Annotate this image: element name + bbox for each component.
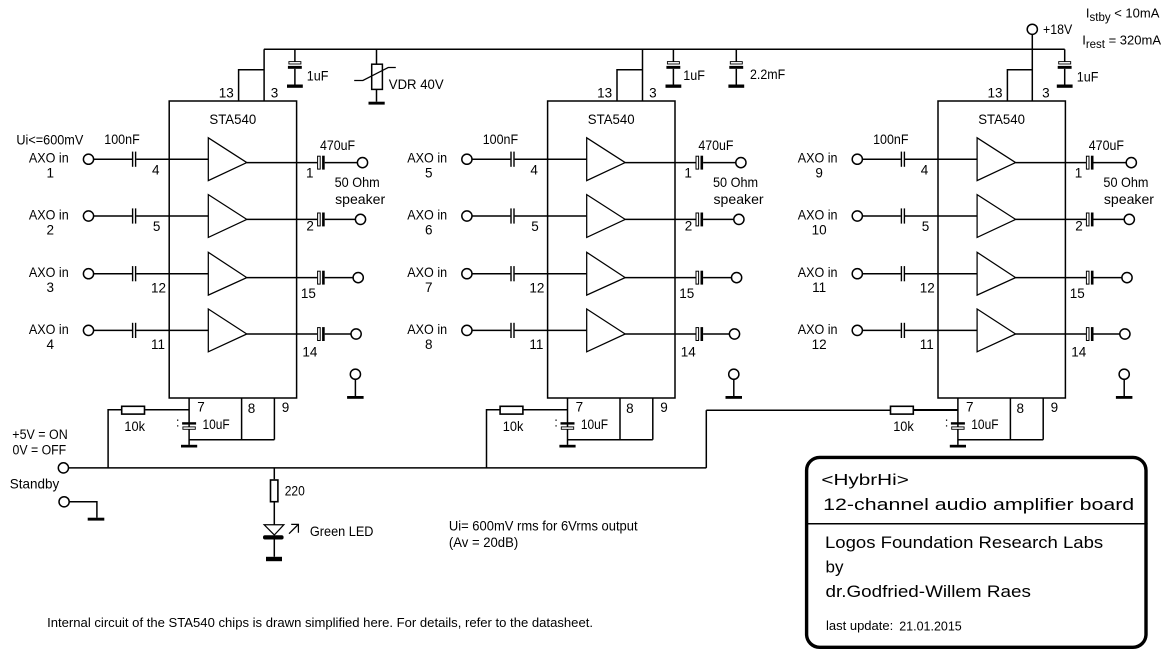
svg-text:AXO in: AXO in [29,206,69,222]
amplifier stage ch 6 (1/4 U2) [587,195,626,238]
svg-text:10uF: 10uF [971,416,998,432]
title block divider [805,523,1148,525]
svg-text:Internal circuit of the STA540: Internal circuit of the STA540 chips is … [47,615,593,630]
amplifier stage ch 3 (1/4 U1) [208,252,247,295]
resistor 10k (U2 standby) [500,406,523,414]
svg-text:7: 7 [966,399,974,414]
svg-text:speaker: speaker [714,191,764,207]
wire: amp ch 3 output to 470uF cap [247,277,317,279]
svg-text:AXO in: AXO in [29,264,69,280]
output capacitor 470uF (ch 1) [318,156,321,169]
svg-text:10: 10 [812,222,827,237]
svg-text:AXO in: AXO in [798,150,838,166]
output capacitor 470uF (ch 12) [1086,328,1089,341]
wire: AXO in 6 to coupling cap [472,215,510,217]
wire: U2 pins 7-8-9 common [568,439,653,441]
svg-text:1: 1 [684,166,692,181]
wire: AXO in 11 to coupling cap [862,273,900,275]
wire: 470uF cap to speaker terminal ch 10 [1094,218,1125,220]
svg-text:9: 9 [282,400,290,415]
svg-text:AXO in: AXO in [798,206,838,222]
svg-text:9: 9 [815,166,823,181]
U1 pin 3 stub [263,49,265,101]
svg-text:6: 6 [425,222,433,237]
svg-text:4: 4 [152,163,160,178]
wire: amp ch 12 output to 470uF cap [1016,333,1086,335]
speaker terminal ch 5 [736,158,746,168]
svg-text:10uF: 10uF [203,416,230,432]
ground (10uF U2) [559,445,575,448]
svg-text:2: 2 [685,218,693,233]
resistor 10k (U1 standby) [122,406,145,414]
terminal AXO in 9 [852,154,862,164]
wire: AXO in 7 to coupling cap [472,273,510,275]
svg-text:11: 11 [920,337,934,352]
ground (C 1uF (U2 supply)) [666,85,682,88]
svg-text:8: 8 [1017,401,1025,416]
wire: +18V terminal down to U3 pin 3 [1031,34,1033,101]
terminal AXO in 10 [852,211,862,221]
svg-text:13: 13 [219,85,234,100]
U3 pin 9 stub [1042,398,1044,440]
wire: coupling cap to U1 pin 11 [136,329,208,331]
svg-text:4: 4 [47,337,55,352]
wire: +18V supply rail [264,48,1065,50]
svg-text:1uF: 1uF [307,68,329,83]
wire: U1 pins 7-8-9 common [189,439,274,441]
coupling capacitor 100nF (ch 3) [132,266,133,281]
svg-text:10k: 10k [124,419,145,434]
wire: U3 10k to U3 pin 7 [914,409,958,411]
U2 pin 7 stub [567,398,569,445]
wire: standby return to ground [69,502,97,518]
svg-text:7: 7 [425,280,433,295]
coupling capacitor 100nF (ch 5) [510,152,511,167]
wire: 470uF cap to speaker terminal ch 6 [703,218,734,220]
wire: return terminal to ground (U2) [733,379,735,396]
amplifier stage ch 10 (1/4 U3) [977,195,1016,238]
svg-text:50 Ohm: 50 Ohm [713,174,758,190]
svg-text:10k: 10k [503,419,524,434]
svg-text:1uF: 1uF [683,68,705,83]
coupling capacitor 100nF (ch 2) [132,208,133,223]
IC U2 STA540 [548,101,675,398]
terminal standby return [59,497,69,507]
svg-text:4: 4 [921,163,929,178]
svg-text:AXO in: AXO in [407,321,447,337]
reservoir capacitor 2.2mF [735,49,737,61]
svg-text:14: 14 [1071,345,1087,360]
coupling capacitor 100nF (ch 10) [901,208,902,223]
svg-text:470uF: 470uF [320,137,355,153]
decoupling capacitor 10uF (U3) [951,422,965,424]
svg-text:0V = OFF: 0V = OFF [13,443,67,458]
amplifier stage ch 11 (1/4 U3) [977,252,1016,295]
wire: 470uF cap to speaker terminal ch 9 [1094,162,1127,164]
wire: 470uF cap to speaker terminal ch 5 [703,162,736,164]
decoupling capacitor 10uF (U2) [561,422,575,424]
svg-text::: : [554,415,558,430]
U3 pin 7 stub [957,398,959,445]
svg-text:10uF: 10uF [581,416,608,432]
LED light arrow [289,525,298,534]
output capacitor 470uF (ch 5) [696,156,699,169]
svg-text:15: 15 [301,286,316,301]
terminal AXO in 4 [83,325,93,335]
wire: AXO in 12 to coupling cap [862,329,900,331]
wire: 10k to U1 pin 7 [145,409,189,411]
output capacitor 470uF (ch 7) [696,271,699,284]
svg-text:AXO in: AXO in [407,206,447,222]
svg-text:15: 15 [1070,286,1085,301]
svg-text:5: 5 [922,219,930,234]
svg-text:by: by [826,557,844,576]
output capacitor 470uF (ch 10) [1086,213,1089,226]
wire: amp ch 6 output to 470uF cap [625,218,695,220]
varistor VDR 40V [376,49,378,64]
svg-text:100nF: 100nF [873,131,908,147]
wire: AXO in 5 to coupling cap [472,158,510,160]
output capacitor 470uF (ch 9) [1086,156,1089,169]
speaker terminal ch 6 [734,214,744,224]
svg-text:7: 7 [576,399,584,414]
svg-text::: : [945,415,949,430]
speaker terminal ch 1 [357,158,367,168]
svg-text:AXO in: AXO in [29,150,69,166]
coupling capacitor 100nF (ch 12) [901,323,902,338]
wire: amp ch 1 output to 470uF cap [247,162,317,164]
svg-text:50 Ohm: 50 Ohm [335,174,380,190]
capacitor C 1uF (U3 supply) [1064,49,1066,61]
wire: amp ch 5 output to 470uF cap [625,162,695,164]
svg-text:220: 220 [285,483,305,498]
output capacitor 470uF (ch 3) [318,271,321,284]
svg-text:dr.Godfried-Willem Raes: dr.Godfried-Willem Raes [826,582,1031,601]
svg-text:9: 9 [1051,400,1059,415]
wire: U3 pins 7-8-9 common [958,439,1043,441]
svg-text:AXO in: AXO in [407,150,447,166]
U1 pin 8 stub [241,398,243,440]
ground (2.2mF) [728,85,744,88]
wire: amp ch 4 output to 470uF cap [247,333,317,335]
svg-text:STA540: STA540 [209,111,256,127]
output capacitor 470uF (ch 4) [318,328,321,341]
wire: coupling cap to U2 pin 5 [515,215,587,217]
wire: coupling cap to U1 pin 4 [136,158,208,160]
LED D1 green (anode triangle) [264,525,284,535]
amplifier stage ch 8 (1/4 U2) [587,309,626,352]
speaker terminal ch 7 [732,273,742,283]
speaker terminal ch 3 [353,273,363,283]
svg-text:Ui= 600mV rms for 6Vrms output: Ui= 600mV rms for 6Vrms output [449,519,638,534]
svg-text:12: 12 [812,337,827,352]
coupling capacitor 100nF (ch 7) [510,266,511,281]
svg-text:470uF: 470uF [698,137,733,153]
coupling capacitor 100nF (ch 9) [901,152,902,167]
wire: 470uF cap to speaker terminal ch 11 [1094,277,1122,279]
svg-text:STA540: STA540 [588,111,635,127]
wire: coupling cap to U2 pin 4 [515,158,587,160]
wire: 470uF cap to speaker terminal ch 12 [1094,333,1120,335]
wire: standby rail riser [705,410,707,468]
ground (VDR) [369,102,385,105]
terminal AXO in 5 [462,154,472,164]
ground (C 1uF (U1 supply)) [287,85,303,88]
U2 pin 9 stub [652,398,654,440]
svg-text:14: 14 [681,345,697,360]
svg-text:+18V: +18V [1043,22,1072,37]
svg-text:1: 1 [1075,166,1083,181]
IC U1 STA540 [169,101,296,398]
amplifier stage ch 4 (1/4 U1) [208,309,247,352]
speaker terminal ch 11 [1122,273,1132,283]
svg-text:2: 2 [47,222,55,237]
wire: amp ch 11 output to 470uF cap [1016,277,1086,279]
capacitor C 1uF (U1 supply) [294,49,296,61]
wire: 470uF cap to speaker terminal ch 8 [703,333,729,335]
amplifier stage ch 7 (1/4 U2) [587,252,626,295]
U3 pin 13 stub [1007,70,1033,101]
wire: return terminal to ground (U3) [1123,379,1125,396]
svg-text:12: 12 [151,281,166,296]
speaker return terminal (U3) [1119,369,1129,379]
svg-text:Green LED: Green LED [310,523,374,539]
svg-text:AXO in: AXO in [798,264,838,280]
IC U3 STA540 [938,101,1065,398]
output capacitor 470uF (ch 6) [696,213,699,226]
wire: coupling cap to U3 pin 12 [905,273,977,275]
resistor 10k (U3 standby) [891,406,914,414]
svg-text:10k: 10k [893,419,914,434]
speaker terminal ch 2 [355,214,365,224]
wire: standby rail to 10k (U1) [108,410,121,468]
svg-text:3: 3 [271,85,279,100]
svg-text:13: 13 [597,85,612,100]
speaker terminal ch 8 [729,329,739,339]
wire: 220 resistor to LED [273,503,275,525]
svg-text:5: 5 [425,166,433,181]
wire: coupling cap to U3 pin 4 [905,158,977,160]
amplifier stage ch 9 (1/4 U3) [977,138,1016,181]
svg-text:1uF: 1uF [1077,69,1099,84]
amplifier stage ch 12 (1/4 U3) [977,309,1016,352]
U1 pin 9 stub [273,398,275,440]
wire: AXO in 10 to coupling cap [862,215,900,217]
svg-text:last update:: last update: [826,618,893,633]
wire: coupling cap to U1 pin 12 [136,273,208,275]
svg-text:21.01.2015: 21.01.2015 [899,620,962,634]
terminal +18V [1027,24,1037,34]
svg-text:(Av = 20dB): (Av = 20dB) [449,535,518,550]
amplifier stage ch 1 (1/4 U1) [208,138,247,181]
resistor 220 (LED) [271,480,278,502]
svg-text:5: 5 [153,219,161,234]
ground (speaker return U3) [1116,396,1133,399]
svg-text:1: 1 [306,166,314,181]
svg-text:AXO in: AXO in [798,321,838,337]
terminal AXO in 8 [462,325,472,335]
wire: return terminal to ground (U1) [354,379,356,396]
ground (10uF U3) [950,445,966,448]
terminal AXO in 11 [852,269,862,279]
wire: 10k to U3 pin 7 [914,409,958,411]
speaker terminal ch 10 [1124,214,1134,224]
wire: amp ch 8 output to 470uF cap [625,333,695,335]
title block frame [807,457,1146,647]
svg-text:2: 2 [1075,218,1083,233]
wire: 470uF cap to speaker terminal ch 2 [325,218,356,220]
terminal AXO in 12 [852,325,862,335]
wire: amp ch 10 output to 470uF cap [1016,218,1086,220]
speaker terminal ch 4 [351,329,361,339]
ground (10uF U1) [181,445,197,448]
speaker terminal ch 12 [1120,329,1130,339]
svg-text:15: 15 [679,286,694,301]
svg-text:+5V = ON: +5V = ON [12,427,67,442]
wire: AXO in 3 to coupling cap [94,273,132,275]
svg-text:9: 9 [660,400,668,415]
wire: standby rail to 10k (U2) [487,410,500,468]
capacitor C 1uF (U2 supply) [672,49,674,61]
svg-text:12: 12 [920,281,935,296]
svg-text:2: 2 [306,218,314,233]
svg-text:<HybrHi>: <HybrHi> [821,472,908,489]
svg-text:100nF: 100nF [104,131,139,147]
wire: coupling cap to U3 pin 11 [905,329,977,331]
svg-text:13: 13 [988,85,1003,100]
wire: amp ch 9 output to 470uF cap [1016,162,1086,164]
wire: AXO in 1 to coupling cap [94,158,132,160]
svg-text:Ui<=600mV: Ui<=600mV [16,133,83,148]
svg-text:AXO in: AXO in [29,321,69,337]
svg-text:Standby: Standby [10,476,59,492]
output capacitor 470uF (ch 8) [696,328,699,341]
wire: coupling cap to U1 pin 5 [136,215,208,217]
svg-text:12: 12 [529,281,544,296]
LED D1 cathode bar [263,535,284,539]
terminal AXO in 6 [462,211,472,221]
svg-text:7: 7 [197,399,205,414]
amplifier stage ch 5 (1/4 U2) [587,138,626,181]
amplifier stage ch 2 (1/4 U1) [208,195,247,238]
wire: amp ch 2 output to 470uF cap [247,218,317,220]
svg-text:4: 4 [530,163,538,178]
wire: 470uF cap to speaker terminal ch 4 [325,333,351,335]
wire: 470uF cap to speaker terminal ch 1 [325,162,358,164]
svg-text:100nF: 100nF [483,131,518,147]
U1 pin 7 stub [188,398,190,445]
output capacitor 470uF (ch 11) [1086,271,1089,284]
svg-text:8: 8 [248,401,256,416]
wire: coupling cap to U2 pin 12 [515,273,587,275]
U2 pin 13 stub [617,70,643,101]
coupling capacitor 100nF (ch 6) [510,208,511,223]
coupling capacitor 100nF (ch 4) [132,323,133,338]
wire: 10k to U2 pin 7 [524,409,568,411]
svg-text:STA540: STA540 [978,111,1025,127]
svg-text:11: 11 [151,337,165,352]
svg-text:11: 11 [529,337,543,352]
wire: AXO in 4 to coupling cap [94,329,132,331]
ground (standby return) [88,518,105,521]
ground (C 1uF (U3 supply)) [1057,85,1073,88]
svg-text:50 Ohm: 50 Ohm [1103,174,1148,190]
ground (speaker return U2) [726,396,743,399]
svg-text:speaker: speaker [1104,191,1154,207]
ground (LED) [266,557,282,561]
terminal AXO in 7 [462,269,472,279]
wire: standby rail [69,467,707,469]
svg-text:Logos Foundation Research Labs: Logos Foundation Research Labs [825,533,1103,552]
svg-text:3: 3 [649,85,657,100]
wire: standby rail upper run to U3 10k [706,409,890,411]
coupling capacitor 100nF (ch 8) [510,323,511,338]
svg-text::: : [176,415,180,430]
wire: coupling cap to U2 pin 11 [515,329,587,331]
svg-text:5: 5 [531,219,539,234]
svg-text:2.2mF: 2.2mF [750,67,785,82]
terminal AXO in 1 [83,154,93,164]
output capacitor 470uF (ch 2) [318,213,321,226]
wire: AXO in 2 to coupling cap [94,215,132,217]
svg-text:12-channel audio amplifier boa: 12-channel audio amplifier board [823,495,1134,514]
svg-text:8: 8 [425,337,433,352]
coupling capacitor 100nF (ch 1) [132,152,133,167]
speaker terminal ch 9 [1126,158,1136,168]
svg-text:14: 14 [302,345,318,360]
svg-text:AXO in: AXO in [407,264,447,280]
speaker return terminal (U1) [350,369,360,379]
wire: LED cathode to ground [273,540,275,557]
svg-text:11: 11 [812,280,826,295]
terminal AXO in 3 [83,269,93,279]
wire: AXO in 9 to coupling cap [862,158,900,160]
svg-text:3: 3 [1042,85,1050,100]
svg-text:VDR 40V: VDR 40V [389,76,444,92]
wire: amp ch 7 output to 470uF cap [625,277,695,279]
wire: 470uF cap to speaker terminal ch 3 [325,277,353,279]
wire: AXO in 8 to coupling cap [472,329,510,331]
wire: 470uF cap to speaker terminal ch 7 [703,277,731,279]
svg-text:1: 1 [47,166,55,181]
U2 pin 3 stub [642,49,644,101]
terminal Standby [58,463,68,473]
svg-text:speaker: speaker [335,191,385,207]
svg-text:8: 8 [626,401,634,416]
U1 pin 13 stub [239,70,265,101]
U3 pin 8 stub [1009,398,1011,440]
U2 pin 8 stub [619,398,621,440]
speaker return terminal (U2) [729,369,739,379]
svg-text:470uF: 470uF [1089,137,1124,153]
terminal AXO in 2 [83,211,93,221]
ground (speaker return U1) [347,396,364,399]
wire: coupling cap to U3 pin 5 [905,215,977,217]
coupling capacitor 100nF (ch 11) [901,266,902,281]
wire: standby rail to 220 resistor [273,468,275,479]
decoupling capacitor 10uF (U1) [182,422,196,424]
svg-text:3: 3 [47,280,55,295]
